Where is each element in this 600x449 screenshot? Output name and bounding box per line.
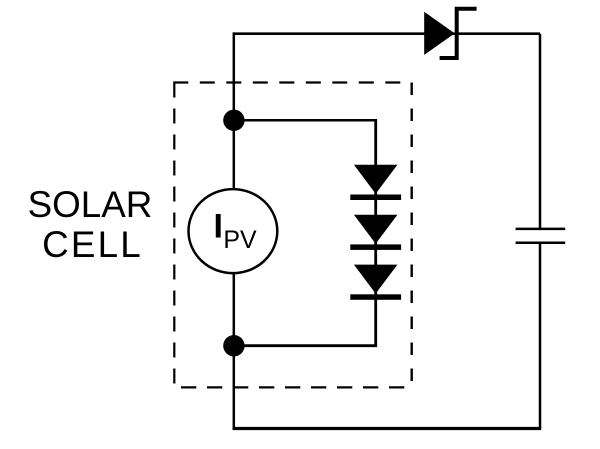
diode D1: [350, 165, 401, 200]
wire branch bottom horizontal: [234, 344, 377, 347]
current source IPV circle: [189, 189, 278, 273]
wire top horizontal: [234, 32, 540, 35]
wire left vertical upper: [233, 32, 236, 189]
node top junction dot: [223, 110, 244, 131]
dashed box solar cell: right edge: [411, 83, 413, 388]
svg-text:CELL: CELL: [42, 224, 143, 265]
dashed box solar cell: bottom edge: [174, 386, 411, 388]
diode D2: [350, 215, 401, 250]
schottky diode top: [424, 9, 476, 58]
wire bottom horizontal: [233, 427, 542, 430]
wire right vertical upper: [539, 34, 542, 228]
wire branch top horizontal: [234, 119, 376, 122]
wire branch vertical: [374, 119, 377, 346]
svg-text:PV: PV: [223, 226, 257, 254]
wire right vertical lower: [539, 244, 542, 429]
svg-text:I: I: [214, 207, 223, 245]
capacitor C: [516, 229, 566, 243]
dashed box solar cell: left edge: [173, 83, 175, 388]
wire left vertical lower: [233, 273, 236, 430]
svg-text:SOLAR: SOLAR: [28, 184, 153, 225]
dashed box solar cell: top edge: [173, 81, 411, 83]
node bottom junction dot: [223, 335, 244, 356]
diode D3: [350, 265, 401, 300]
